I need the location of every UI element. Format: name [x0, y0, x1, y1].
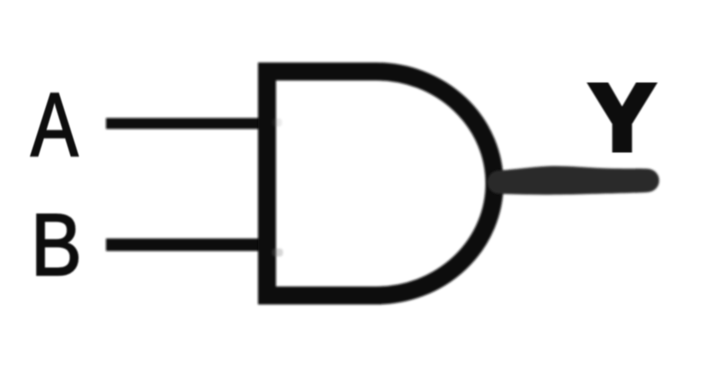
AND gate U1 body	[267, 72, 494, 296]
wire B (input B to gate)	[106, 239, 271, 252]
svg-text:Y: Y	[591, 66, 654, 170]
svg-text:B: B	[31, 196, 82, 294]
wire A (input A to gate)	[106, 118, 271, 129]
wire A stub past gate edge (fainter)	[272, 119, 282, 127]
wire Y (gate output, hand-drawn marker stroke)	[487, 166, 659, 195]
svg-text:A: A	[31, 76, 78, 176]
wire B stub past gate edge (faint)	[272, 249, 283, 257]
